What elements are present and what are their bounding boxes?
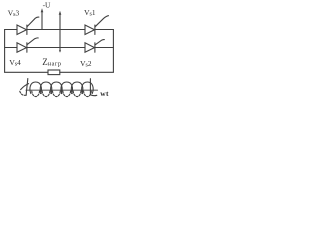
wire right vertical [112, 30, 114, 73]
wire middle rail right segment [95, 47, 113, 49]
wire bottom rail left segment [5, 71, 48, 73]
voltage arrow right [59, 11, 62, 53]
svg-text:Vs2: Vs2 [80, 59, 92, 68]
load box Z nagr [48, 70, 60, 75]
winding turn 1 [30, 82, 41, 94]
winding turn 5 [71, 82, 82, 94]
winding hidden turn 6 dashed [84, 91, 92, 97]
wire bottom rail right segment [60, 71, 114, 73]
transformer winding axis [26, 89, 98, 91]
svg-text:Zнагр: Zнагр [42, 57, 61, 67]
thyristor VS4 [17, 38, 38, 52]
wire top rail left segment [5, 29, 17, 31]
winding hidden turn 1 dashed [32, 91, 40, 97]
svg-text:Vs3: Vs3 [8, 9, 20, 18]
wire middle rail left segment [5, 47, 17, 49]
thyristor VS1 [85, 16, 109, 35]
winding turn 3 [51, 82, 62, 94]
wire top rail right segment [95, 29, 113, 31]
winding right lead exit hook [90, 94, 96, 97]
winding right lead [89, 79, 91, 95]
winding left lead entry curve [21, 84, 29, 90]
winding hidden turn 5 dashed [73, 91, 81, 97]
svg-text:Vs1: Vs1 [84, 8, 96, 17]
svg-text:-U: -U [43, 1, 51, 10]
thyristor VS2 [85, 40, 104, 53]
svg-text:wt: wt [100, 89, 109, 98]
winding hidden turn 2 dashed [42, 91, 50, 97]
winding hidden turn 4 dashed [63, 91, 71, 97]
svg-text:Vs4: Vs4 [9, 58, 21, 67]
winding hidden turn 3 dashed [53, 91, 61, 97]
winding turn 2 [40, 82, 51, 94]
winding left lead [26, 79, 28, 96]
winding turn 6 [82, 82, 93, 94]
voltage arrow left (-U) [41, 8, 44, 29]
wire left vertical [4, 30, 6, 73]
wire top rail middle segment [27, 29, 85, 31]
wire middle rail middle segment [27, 47, 85, 49]
winding turn 4 [61, 82, 72, 94]
winding left hidden entry dashed [20, 91, 27, 95]
thyristor VS3 [17, 17, 39, 34]
